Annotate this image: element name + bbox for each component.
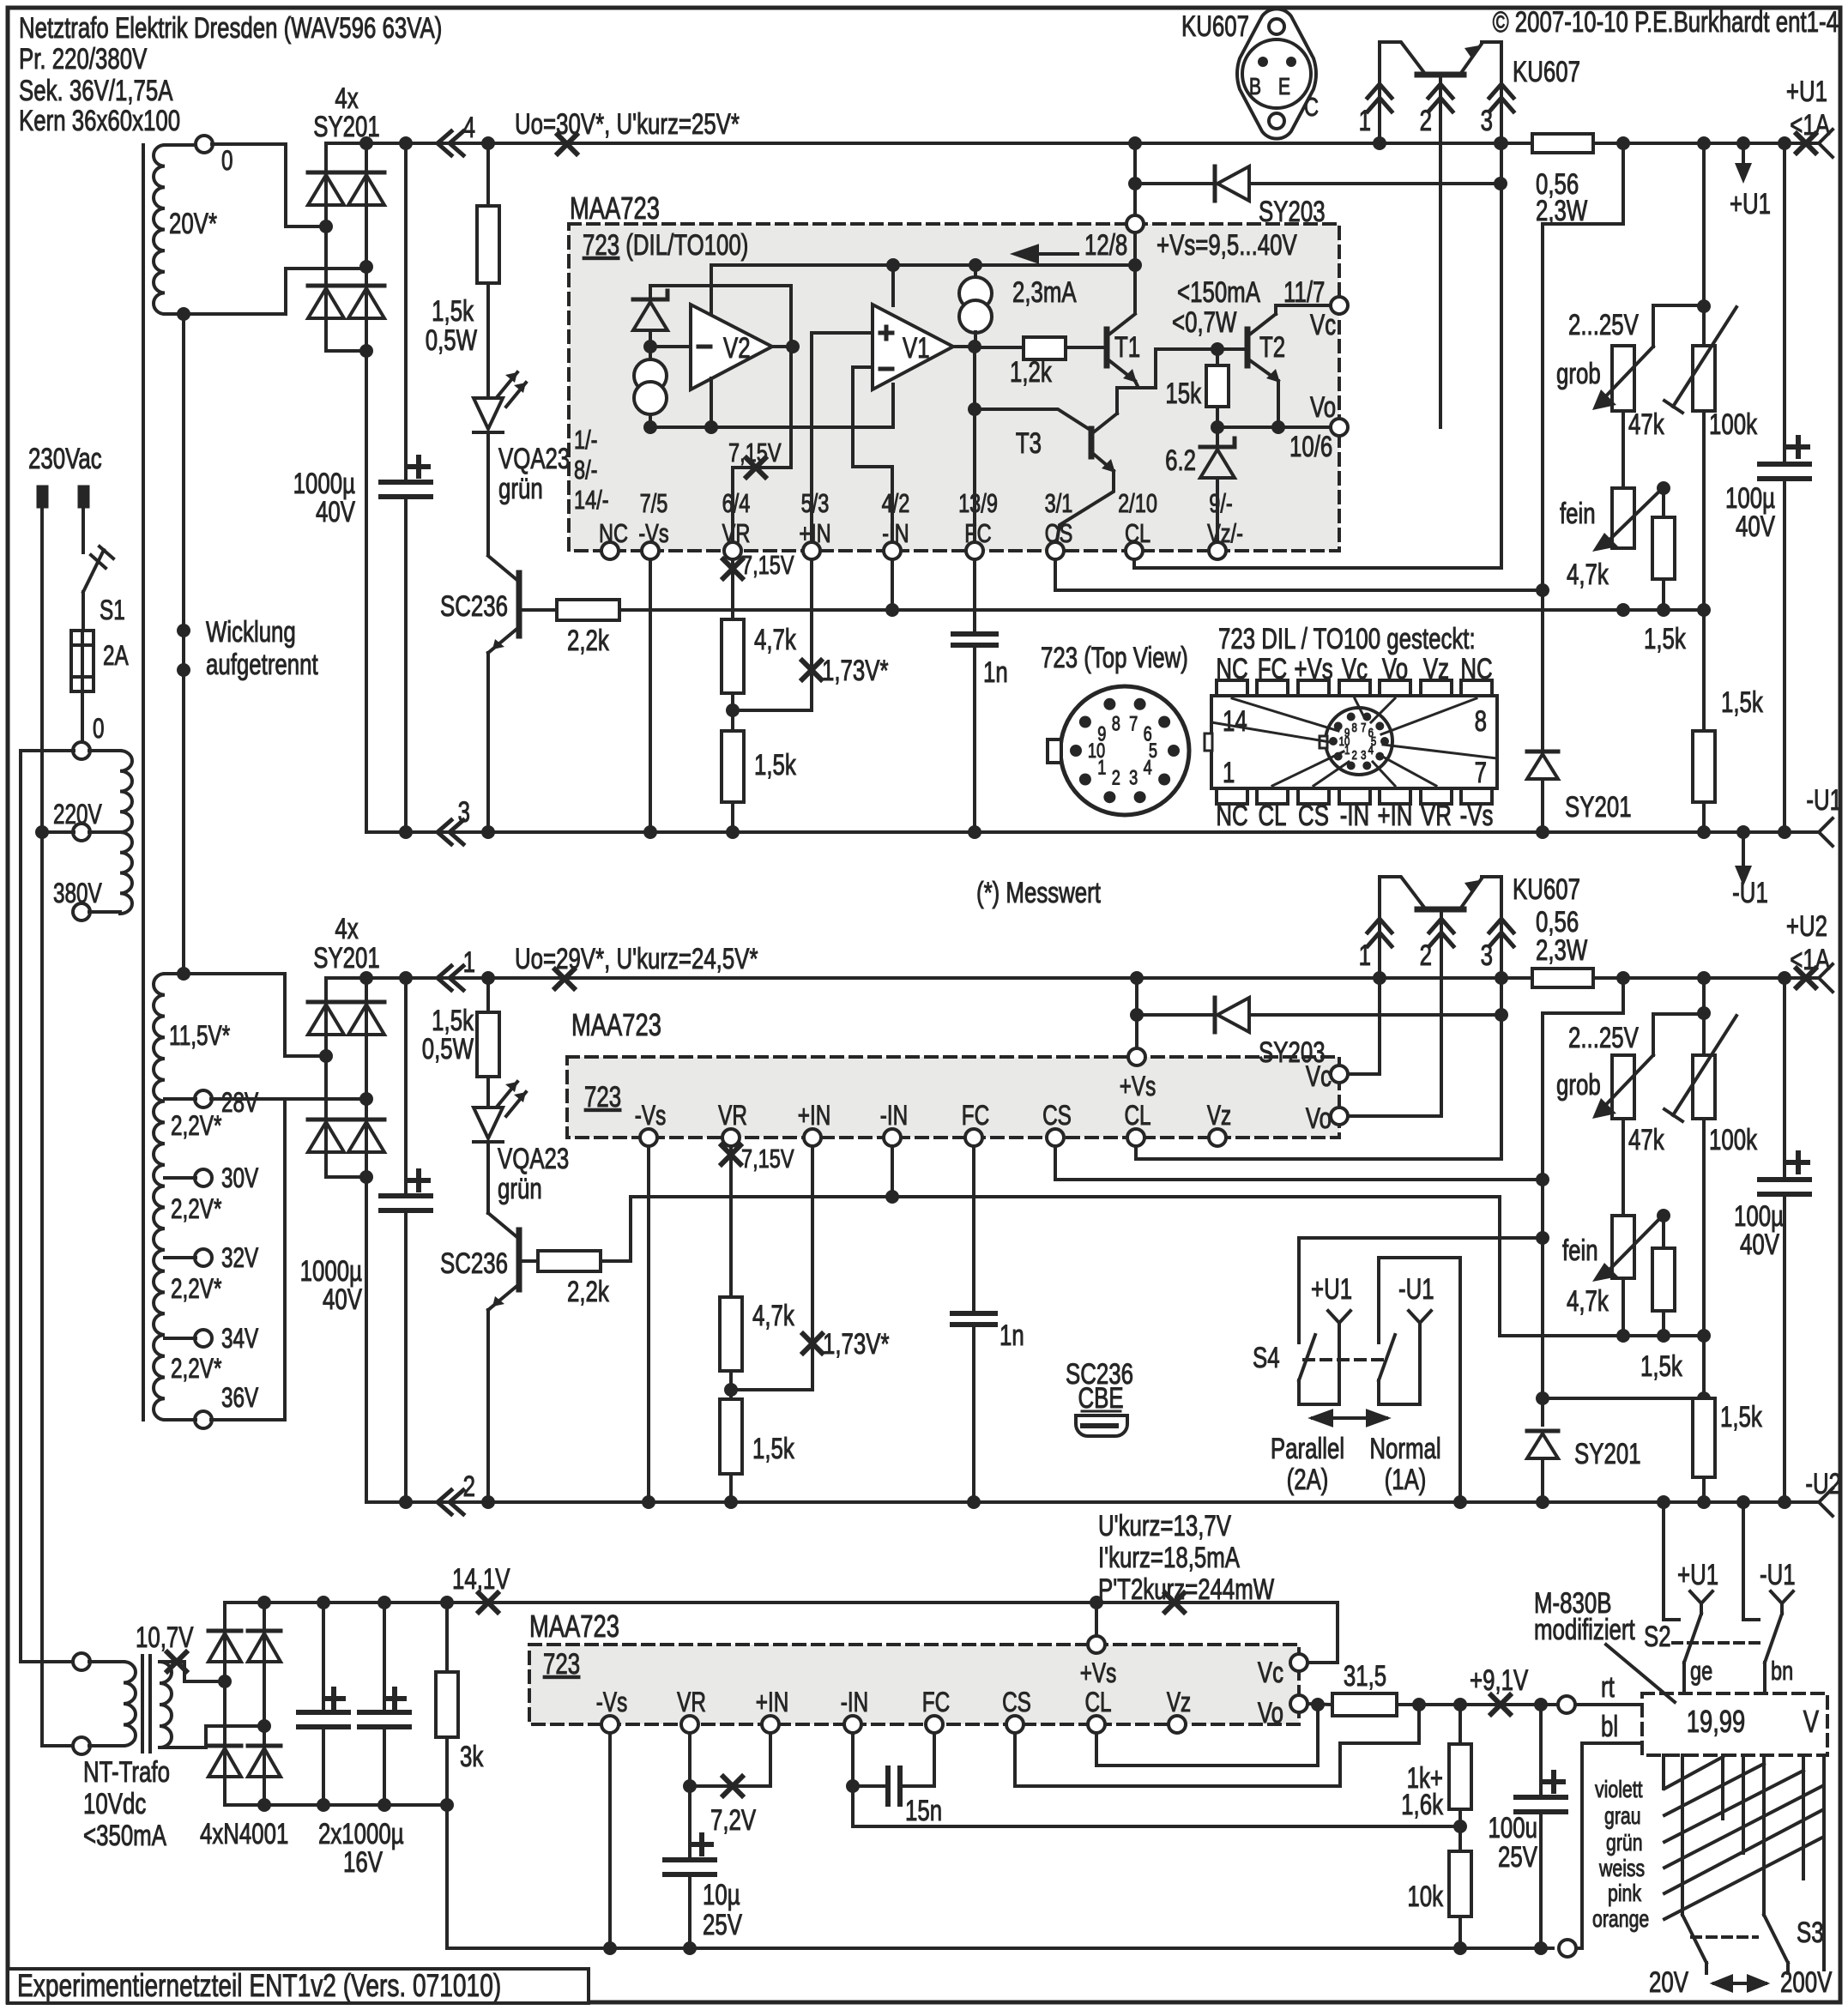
svg-text:15n: 15n [905, 1796, 942, 1827]
wire 28V tap to rectifier AC2 [211, 1097, 366, 1101]
capacitor 1n ch1 [973, 559, 976, 634]
svg-text:Kern 36x60x100: Kern 36x60x100 [19, 106, 180, 137]
svg-text:2,3mA: 2,3mA [1012, 277, 1077, 309]
svg-text:2,2k: 2,2k [567, 625, 610, 657]
svg-text:1,6k: 1,6k [1401, 1790, 1444, 1821]
svg-text:B: B [1249, 73, 1261, 100]
ch3 CL sense wire [1096, 1705, 1318, 1766]
ch3 -IN feedback wire [853, 1786, 1460, 1826]
potentiometer fein 4,7k ch2 [1622, 1119, 1625, 1216]
svg-text:T3: T3 [1016, 428, 1042, 460]
svg-text:4/2: 4/2 [882, 488, 910, 518]
svg-text:11/7: 11/7 [1283, 277, 1325, 309]
svg-text:SC236: SC236 [440, 1248, 508, 1280]
svg-text:2: 2 [1352, 748, 1357, 763]
svg-text:-IN: -IN [880, 1101, 908, 1132]
tap 30V [195, 1169, 212, 1186]
ch2 +IN feedback wire [731, 1146, 812, 1390]
svg-text:+Vs: +Vs [1120, 1071, 1157, 1102]
ch1 bridge column A [324, 143, 328, 351]
svg-text:S2: S2 [1644, 1621, 1671, 1653]
svg-text:7,15V: 7,15V [741, 550, 794, 580]
svg-text:fein: fein [1562, 1235, 1598, 1267]
bl output terminal [1559, 1940, 1576, 1957]
svg-text:10µ: 10µ [703, 1880, 740, 1911]
svg-text:1: 1 [1223, 758, 1235, 789]
-U1 output arrow [1736, 825, 1750, 839]
svg-text:V2: V2 [723, 333, 751, 365]
svg-text:grün: grün [1606, 1829, 1643, 1856]
svg-text:1: 1 [1097, 756, 1106, 779]
svg-text:1,5k: 1,5k [432, 296, 474, 328]
svg-text:CL: CL [1084, 1687, 1111, 1718]
switch S3 [1681, 1909, 1684, 1915]
svg-text:4: 4 [1368, 742, 1374, 757]
svg-text:1/-: 1/- [574, 425, 597, 455]
resistor 0,56 2,3W ch1 [1494, 136, 1507, 150]
svg-text:230Vac: 230Vac [28, 444, 102, 475]
resistor 3k [440, 1596, 454, 1609]
svg-text:2,3W: 2,3W [1536, 935, 1588, 967]
svg-text:MAA723: MAA723 [570, 190, 660, 226]
svg-text:+IN: +IN [1378, 800, 1413, 832]
svg-text:1,5k: 1,5k [1640, 1351, 1683, 1383]
ch1 measurement mark Uo [558, 135, 577, 154]
wire fuse to terminal 0 [81, 691, 84, 743]
svg-text:grob: grob [1556, 1070, 1601, 1102]
svg-text:Vc: Vc [1258, 1657, 1283, 1689]
ch2 IC Vc pin [1331, 1065, 1348, 1083]
svg-text:<1A: <1A [1790, 110, 1830, 142]
svg-text:20V*: 20V* [169, 208, 217, 240]
svg-text:2: 2 [463, 1471, 475, 1503]
resistor 10k [1458, 1826, 1462, 1851]
ch1 bus right terminal [1797, 134, 1815, 153]
mains plug pin L [37, 486, 48, 508]
svg-text:2: 2 [1420, 940, 1432, 972]
op-amp V2 [691, 305, 772, 389]
svg-text:(2A): (2A) [1287, 1464, 1329, 1496]
resistor 1,5k fein ch2 [1662, 1216, 1665, 1248]
svg-text:3k: 3k [460, 1741, 484, 1773]
svg-text:<150mA: <150mA [1177, 277, 1261, 309]
zener 6.2 [1216, 427, 1219, 447]
svg-text:+U1: +U1 [1786, 76, 1827, 108]
svg-text:KU607: KU607 [1513, 874, 1580, 906]
svg-text:S3: S3 [1797, 1917, 1824, 1949]
svg-text:+Vs=9,5...40V: +Vs=9,5...40V [1157, 230, 1297, 262]
ch1 bus chevron connector 4 [438, 131, 451, 155]
svg-text:14,1V: 14,1V [452, 1564, 510, 1596]
resistor 1,5k 0,5W ch2 [481, 971, 495, 985]
svg-text:+IN: +IN [756, 1687, 789, 1718]
transistor SC236 ch1 [486, 432, 490, 555]
svg-text:3: 3 [1361, 748, 1366, 763]
svg-text:-U1: -U1 [1806, 785, 1842, 817]
svg-text:723 DIL / TO100 gesteckt:: 723 DIL / TO100 gesteckt: [1218, 624, 1476, 655]
svg-text:Sek. 36V/1,75A: Sek. 36V/1,75A [19, 75, 173, 107]
ch1 CS sense wire [1055, 559, 1543, 590]
svg-text:3: 3 [1129, 766, 1138, 789]
svg-text:6/4: 6/4 [722, 488, 751, 518]
ch2 current sense jog wire [1543, 978, 1623, 1425]
ch3 wire -Vs to bus [608, 1733, 612, 1948]
ch1 IC Vc pin [1331, 297, 1348, 314]
svg-text:+U1: +U1 [1311, 1274, 1352, 1306]
svg-text:1,5k: 1,5k [754, 750, 797, 782]
ch2 bridge diode D1 [308, 1000, 344, 1005]
ch3 CS sense wire [1015, 1705, 1419, 1786]
svg-text:25V: 25V [1498, 1842, 1537, 1874]
svg-text:4x: 4x [335, 83, 358, 115]
svg-text:<350mA: <350mA [83, 1820, 167, 1852]
svg-text:14: 14 [1223, 706, 1247, 738]
ch1 IC +IN input wire [812, 333, 873, 551]
svg-text:0: 0 [93, 714, 105, 745]
svg-text:13/9: 13/9 [958, 488, 998, 518]
ch3 diode D1 [208, 1629, 241, 1633]
ch2 measurement mark Uo [555, 969, 574, 988]
svg-text:4,7k: 4,7k [752, 1301, 795, 1332]
potentiometer grob 47k ch2 [1612, 1055, 1634, 1119]
wire 0-terminal to NT-Trafo feed [21, 751, 74, 1662]
ch2 CS sense wire [1055, 1146, 1543, 1180]
ch3 bridge column A [223, 1603, 226, 1805]
svg-text:+U1: +U1 [1677, 1560, 1718, 1591]
S4 mode arrow and labels [1313, 1411, 1386, 1425]
svg-text:modifiziert: modifiziert [1534, 1615, 1635, 1646]
svg-text:-U1: -U1 [1732, 878, 1768, 909]
svg-text:10/6: 10/6 [1289, 432, 1332, 463]
resistor 1k+1,6k [1458, 1705, 1462, 1744]
resistor 31,5 [1332, 1693, 1397, 1716]
diode SY201 ch2 [1527, 1429, 1558, 1434]
primary winding 220/380V [89, 749, 120, 752]
resistor 1,5k output ch2 [1702, 1336, 1706, 1398]
svg-text:16V: 16V [343, 1847, 383, 1879]
ch1 IC V2 supply stubs [710, 378, 713, 427]
resistor 2,2k ch1 [519, 608, 557, 612]
capacitor 1000u 40V ch2 [399, 971, 413, 985]
svg-text:2,2V*: 2,2V* [171, 1274, 221, 1305]
svg-text:1,5k: 1,5k [752, 1434, 795, 1465]
wire 36V tap riser [211, 1099, 285, 1420]
ch1 IC +Vs rail [711, 265, 1135, 315]
svg-text:8/-: 8/- [574, 455, 597, 485]
svg-text:32V: 32V [221, 1243, 258, 1274]
ch1 IC +Vs pin [1126, 215, 1144, 232]
+U1 output arrow [1736, 136, 1750, 150]
svg-text:19,99: 19,99 [1687, 1704, 1745, 1739]
svg-text:S4: S4 [1253, 1343, 1280, 1374]
svg-text:2/10: 2/10 [1118, 488, 1157, 518]
junction L / 220V tap [35, 825, 49, 839]
capacitor 1000u #1 ch3 [317, 1596, 330, 1609]
transistor KU607 ch1 [1380, 42, 1425, 143]
potentiometer grob 47k ch1 [1612, 346, 1634, 411]
resistor 2,2k ch2 [519, 1259, 538, 1263]
ch3 bridge rail to meter minus bus [445, 1805, 449, 1948]
capacitor 1000u 40V ch1 [399, 136, 413, 150]
transistor KU607 ch2 [1380, 877, 1425, 978]
svg-text:T1: T1 [1114, 332, 1140, 364]
potentiometer 100k ch2 [1693, 1055, 1715, 1119]
fuse 2A [71, 631, 94, 691]
svg-text:-Vs: -Vs [1460, 800, 1494, 832]
ch1 bridge diode D3 [348, 171, 384, 175]
svg-text:4: 4 [463, 112, 475, 144]
svg-text:0,5W: 0,5W [422, 1034, 474, 1065]
svg-text:Wicklung: Wicklung [206, 617, 296, 649]
svg-text:4: 4 [1144, 756, 1152, 779]
ch2 bridge bottom join / to minus bus [326, 1177, 366, 1502]
svg-text:rt: rt [1601, 1672, 1615, 1704]
ch2 bridge diode D2 [308, 1118, 344, 1122]
potentiometer 100k ch1 [1693, 346, 1715, 411]
svg-text:ge: ge [1690, 1656, 1712, 1686]
svg-text:0: 0 [221, 146, 233, 177]
NT-Trafo windings [89, 1660, 124, 1663]
svg-text:CL: CL [1258, 800, 1286, 832]
723 DIL crossing wires [1232, 698, 1338, 731]
svg-text:VQA23: VQA23 [498, 444, 570, 475]
tap 28V [195, 1090, 212, 1108]
svg-text:40V: 40V [1736, 511, 1775, 543]
ch2 IC +Vs pin [1128, 1048, 1145, 1065]
svg-text:MAA723: MAA723 [571, 1007, 661, 1042]
svg-text:2A: 2A [103, 641, 129, 672]
svg-text:100k: 100k [1709, 1125, 1758, 1156]
svg-text:40V: 40V [1740, 1229, 1779, 1261]
svg-text:100µ: 100µ [1734, 1201, 1784, 1233]
IC MAA723 ch2 box [567, 1057, 1339, 1138]
svg-text:CS: CS [1298, 800, 1329, 832]
svg-text:(*) Messwert: (*) Messwert [976, 878, 1101, 909]
svg-text:Uo=29V*, U'kurz=24,5V*: Uo=29V*, U'kurz=24,5V* [515, 944, 758, 975]
svg-text:1000µ: 1000µ [293, 468, 355, 500]
svg-text:VR: VR [718, 1101, 747, 1132]
svg-text:-U1: -U1 [1398, 1274, 1434, 1306]
ch2 bridge diode D3 [348, 1000, 384, 1005]
ch2 plus bus [326, 976, 1532, 980]
terminal 0 of primary [73, 742, 90, 759]
secondary lower end junction to ch2 winding [177, 307, 190, 321]
svg-text:1,5k: 1,5k [1720, 1402, 1763, 1434]
svg-text:31,5: 31,5 [1344, 1661, 1386, 1693]
diode SY201 ch1 [1541, 590, 1544, 751]
svg-text:FC: FC [922, 1687, 950, 1718]
ch2 bridge column A [324, 978, 328, 1177]
ch2 minus bus [366, 1500, 1819, 1504]
svg-text:10Vdc: 10Vdc [83, 1789, 146, 1820]
svg-text:3/1: 3/1 [1045, 488, 1073, 518]
svg-text:7,15V: 7,15V [741, 1144, 794, 1174]
svg-text:S1: S1 [100, 595, 125, 626]
svg-text:2...25V: 2...25V [1568, 310, 1639, 341]
svg-text:4,7k: 4,7k [1567, 1286, 1609, 1318]
svg-text:<1A: <1A [1790, 945, 1830, 976]
meter wire leaders [1664, 1757, 1723, 1789]
svg-text:bn: bn [1771, 1656, 1793, 1686]
ch3 +IN wire [769, 1733, 772, 1786]
ch2 IC Vo pin [1331, 1108, 1348, 1125]
svg-text:pink: pink [1608, 1880, 1642, 1907]
svg-text:MAA723: MAA723 [529, 1609, 619, 1644]
ch2 bus right terminal [1797, 969, 1815, 987]
ch3 VR 7,2V node [688, 1733, 691, 1786]
ch1 bus +raw [326, 142, 1532, 145]
resistor 15k [1216, 349, 1219, 365]
svg-text:CBE: CBE [1078, 1383, 1123, 1415]
resistor 1,2k ch1 [975, 346, 1024, 349]
svg-text:bl: bl [1601, 1711, 1618, 1743]
meter minus bus [447, 1947, 1553, 1950]
svg-text:723: 723 [543, 1649, 580, 1681]
ch1 bridge diode D2 [308, 284, 344, 288]
ch1 IC minus rail [650, 426, 893, 429]
ch1 IC Vo line [1217, 426, 1331, 429]
svg-text:1000µ: 1000µ [300, 1256, 362, 1288]
ch2 VR divider 4,7k / 1,5k [722, 1145, 740, 1164]
svg-text:15k: 15k [1165, 378, 1201, 410]
secondary winding 20V* (upper) [154, 145, 165, 314]
svg-text:C: C [1304, 92, 1319, 122]
svg-text:8: 8 [1475, 706, 1487, 738]
ch1 IC FC column [973, 347, 976, 551]
svg-text:I'kurz=18,5mA: I'kurz=18,5mA [1098, 1542, 1241, 1574]
svg-text:CS: CS [1002, 1687, 1031, 1718]
svg-text:VQA23: VQA23 [498, 1144, 569, 1175]
transformer core [142, 145, 145, 1420]
svg-text:28V: 28V [221, 1088, 258, 1119]
capacitor 1000u #2 ch3 [377, 1596, 391, 1609]
switch S1 [83, 550, 104, 592]
svg-text:14/-: 14/- [574, 485, 609, 515]
IC MAA723 ch3 box [529, 1645, 1299, 1724]
wire N down to switch [82, 508, 85, 546]
svg-text:723: 723 [584, 1082, 621, 1114]
svg-text:Vo: Vo [1306, 1103, 1332, 1135]
rt output terminal [1558, 1696, 1575, 1713]
mains plug pin N [78, 486, 89, 508]
svg-text:10k: 10k [1407, 1881, 1443, 1913]
diode SY203 ch1 [1135, 182, 1215, 185]
svg-text:723 (DIL/TO100): 723 (DIL/TO100) [583, 230, 748, 262]
svg-text:2...25V: 2...25V [1568, 1023, 1639, 1054]
svg-text:-IN: -IN [841, 1687, 868, 1718]
svg-text:7,2V: 7,2V [710, 1805, 756, 1837]
ch2 feedback rail wire [601, 1197, 1704, 1336]
ch1 bridge diode D4 [348, 284, 384, 288]
diode SY203 ch2 [1137, 1013, 1215, 1017]
ch2 -IN wire to rail [891, 1146, 894, 1197]
ch1 IC -IN input wire [853, 367, 892, 551]
svg-text:Experimentiernetzteil ENT1v2 (: Experimentiernetzteil ENT1v2 (Vers. 0710… [17, 1967, 501, 2003]
tap 220V [73, 824, 90, 841]
tap 380V [73, 903, 90, 920]
svg-text:7: 7 [1361, 720, 1366, 734]
ch1 wire -Vs pin to minus bus [649, 559, 652, 832]
svg-text:KU607: KU607 [1513, 57, 1580, 88]
svg-text:10,7V: 10,7V [136, 1622, 194, 1654]
svg-text:4,7k: 4,7k [1567, 559, 1609, 591]
ch1 IC current source 2,3mA [974, 265, 977, 278]
NT secondary bottom wire [160, 1726, 264, 1747]
tap 32V [195, 1249, 212, 1266]
NT-Trafo primary terminal upper [73, 1653, 90, 1670]
svg-text:violett: violett [1595, 1776, 1643, 1803]
svg-text:47k: 47k [1628, 409, 1664, 441]
svg-text:4x: 4x [335, 914, 358, 945]
ch3 IC pins [601, 1716, 619, 1733]
svg-text:40V: 40V [323, 1284, 362, 1316]
svg-text:200V: 200V [1780, 1967, 1832, 1999]
svg-text:9: 9 [1097, 722, 1106, 745]
ch1 IC zener reference [650, 284, 791, 287]
voltmeter M-830B [1642, 1693, 1827, 1755]
svg-text:SY201: SY201 [1565, 792, 1632, 824]
svg-text:1,5k: 1,5k [1644, 624, 1687, 655]
ch3 diode D3 [248, 1629, 281, 1633]
svg-text:Vz: Vz [1207, 1101, 1231, 1132]
svg-text:FC: FC [962, 1101, 989, 1132]
svg-text:+IN: +IN [798, 1101, 831, 1132]
ch1 bridge bottom join / down to minus bus [326, 351, 366, 832]
svg-text:SY201: SY201 [1574, 1439, 1641, 1470]
resistor 0,56 2,3W ch2 [1532, 969, 1593, 987]
capacitor 100u 25V meter [1539, 1705, 1543, 1797]
svg-text:5/3: 5/3 [801, 488, 830, 518]
svg-text:2: 2 [1112, 766, 1120, 789]
ch3 -IN node [851, 1733, 855, 1786]
svg-text:1: 1 [1359, 940, 1371, 972]
svg-text:2x1000µ: 2x1000µ [318, 1819, 404, 1850]
svg-text:+U1: +U1 [1730, 189, 1771, 220]
svg-text:-IN: -IN [1340, 800, 1369, 832]
svg-text:CL: CL [1124, 1101, 1150, 1132]
capacitor 1n ch2 [972, 1146, 975, 1313]
transistor T3 [975, 409, 1089, 429]
ch1 +IN feedback wire [733, 559, 812, 710]
ch2 bridge column B [365, 978, 368, 1177]
svg-text:CS: CS [1042, 1101, 1072, 1132]
LED VQA23 ch2 [486, 1077, 490, 1108]
ch1 -IN wire to rail [891, 559, 894, 610]
svg-text:Vo: Vo [1258, 1698, 1283, 1729]
svg-text:2,2V*: 2,2V* [171, 1354, 221, 1385]
svg-text:9/-: 9/- [1209, 488, 1232, 518]
svg-text:0,5W: 0,5W [426, 325, 478, 357]
ch3 bridge column B [263, 1603, 266, 1805]
svg-text:3: 3 [1481, 106, 1493, 137]
svg-text:V: V [1803, 1704, 1820, 1739]
svg-text:Normal: Normal [1369, 1434, 1440, 1465]
ch3 IC Vc pin [1290, 1654, 1307, 1671]
svg-text:grau: grau [1604, 1802, 1641, 1830]
op-amp V1 [873, 305, 953, 389]
svg-text:KU607: KU607 [1181, 11, 1249, 43]
transistor SC236 ch2 [486, 1142, 490, 1213]
ch2 IC pins [640, 1129, 657, 1146]
svg-text:8: 8 [1352, 720, 1357, 734]
ch2 CL sense wire [1136, 1146, 1501, 1159]
ch1 minus bus [366, 830, 1819, 834]
svg-text:SY201: SY201 [313, 943, 380, 975]
svg-text:30V: 30V [221, 1163, 258, 1194]
svg-text:2: 2 [1420, 106, 1432, 137]
svg-text:aufgetrennt: aufgetrennt [206, 649, 318, 681]
svg-text:weiss: weiss [1598, 1855, 1645, 1882]
